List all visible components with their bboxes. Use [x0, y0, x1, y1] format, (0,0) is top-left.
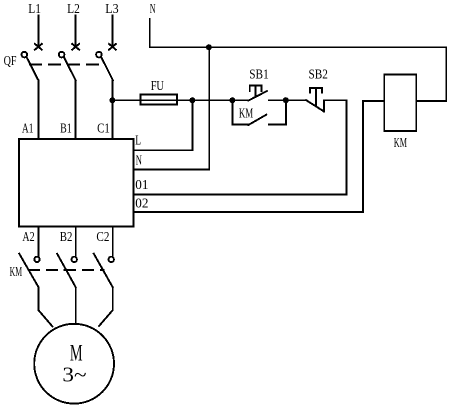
svg-text:B2: B2: [60, 230, 73, 245]
junction C1 control tap: [109, 97, 115, 103]
terminal 01 label: [135, 178, 148, 193]
breaker QF pole1 blade: [27, 57, 39, 80]
contactor KM pole3 contact circle: [109, 257, 114, 262]
terminal A1 label: [22, 122, 34, 137]
motor M label: [70, 341, 83, 366]
breaker QF fixed contact X pole1: [35, 44, 42, 50]
terminal A2 label: [22, 230, 34, 245]
wire phase A to box: [37, 80, 39, 139]
svg-text:L2: L2: [67, 2, 80, 17]
pushbutton SB2 label: [309, 68, 328, 83]
breaker QF pole2 blade: [64, 57, 76, 80]
svg-text:3~: 3~: [62, 362, 86, 386]
svg-text:KM: KM: [10, 265, 23, 280]
pushbutton SB1 actuator: [250, 86, 262, 92]
breaker QF label: [4, 54, 17, 69]
wire L1 drop: [37, 16, 39, 47]
pushbutton SB2 actuator: [310, 88, 322, 92]
coil KM: [384, 75, 416, 132]
svg-text:L: L: [135, 133, 141, 148]
breaker QF linkage dashed: [30, 63, 104, 65]
soft starter box: [19, 139, 133, 227]
svg-text:N: N: [150, 2, 156, 17]
contactor KM pole3 blade: [94, 254, 113, 288]
wire A2 drop: [38, 227, 40, 257]
node L1 label: [28, 2, 41, 17]
coil KM label: [394, 136, 408, 151]
terminal L label: [135, 133, 141, 148]
svg-text:01: 01: [135, 178, 148, 193]
fuse FU label: [151, 79, 164, 94]
breaker QF pole3 blade: [101, 57, 113, 80]
svg-text:A2: A2: [22, 230, 34, 245]
wire N top rail: [150, 19, 447, 47]
terminal N label: [136, 154, 142, 169]
breaker QF pole2 pivot circle: [59, 52, 65, 58]
terminal B2 label: [60, 230, 73, 245]
node L2 label: [67, 2, 80, 17]
svg-text:QF: QF: [4, 54, 17, 69]
svg-text:A1: A1: [22, 122, 34, 137]
breaker QF fixed contact X pole3: [109, 44, 116, 50]
contactor KM label: [10, 265, 23, 280]
wire control rail: [112, 99, 232, 101]
svg-text:N: N: [136, 154, 142, 169]
junction SB1 left node: [229, 97, 235, 103]
svg-text:L3: L3: [105, 2, 118, 17]
terminal C1 label: [97, 122, 110, 137]
wire pole2 to motor: [75, 287, 77, 324]
pushbutton SB1 label: [249, 68, 268, 83]
breaker QF pole3 pivot circle: [96, 52, 102, 58]
contact KM auxiliary branch: [232, 100, 248, 124]
svg-text:B1: B1: [60, 122, 72, 137]
wire SB2 output to terminal 01: [133, 100, 346, 194]
wire pole1 to motor: [39, 287, 53, 326]
svg-text:FU: FU: [151, 79, 164, 94]
contactor KM pole1 contact circle: [34, 257, 39, 262]
terminal 02 label: [135, 197, 148, 212]
terminal B1 label: [60, 122, 72, 137]
svg-text:KM: KM: [394, 136, 408, 151]
node L3 label: [105, 2, 118, 17]
contactor KM linkage dashed: [29, 269, 104, 271]
terminal C2 label: [96, 230, 109, 245]
breaker QF fixed contact X pole2: [72, 44, 79, 50]
wire N tap to box: [133, 47, 209, 169]
wire coil to N rail: [416, 47, 446, 101]
wire L3 drop: [111, 16, 113, 47]
motor M circle: [34, 324, 114, 404]
svg-text:02: 02: [135, 197, 148, 212]
contactor KM pole2 blade: [57, 254, 76, 288]
pushbutton SB2 contact: [286, 99, 306, 101]
svg-text:SB1: SB1: [249, 68, 268, 83]
svg-text:C1: C1: [97, 122, 110, 137]
wire phase C to box: [111, 80, 113, 139]
junction N tap: [206, 44, 212, 50]
breaker QF pole1 pivot circle: [22, 52, 28, 58]
wire L2 drop: [75, 16, 77, 47]
wire C2 drop: [112, 227, 114, 257]
svg-text:C2: C2: [96, 230, 109, 245]
pushbutton SB1 contact: [232, 99, 248, 101]
junction L tap: [189, 97, 195, 103]
wire pole3 to motor: [99, 287, 113, 326]
node N label: [150, 2, 156, 17]
wire L tap to box: [133, 100, 192, 150]
wire B2 drop: [75, 227, 77, 257]
wire phase B to box: [75, 80, 77, 139]
contactor KM pole2 contact circle: [72, 257, 77, 262]
contactor KM pole1 blade: [19, 254, 38, 288]
junction SB1 right node: [283, 97, 289, 103]
svg-text:SB2: SB2: [309, 68, 328, 83]
motor 3~ label: [62, 362, 86, 386]
wire terminal 02 to coil: [133, 101, 384, 212]
fuse FU: [141, 95, 178, 105]
svg-text:L1: L1: [28, 2, 41, 17]
contact KM auxiliary label: [239, 107, 254, 122]
svg-text:KM: KM: [239, 107, 254, 122]
